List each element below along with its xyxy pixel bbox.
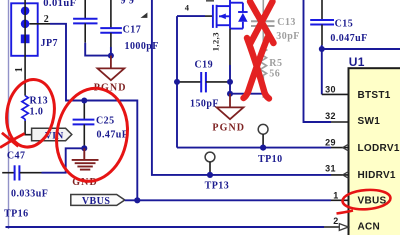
svg-text:C17: C17 bbox=[123, 25, 142, 36]
capacitor C47 bbox=[2, 165, 41, 180]
pin 31 arrow bbox=[343, 172, 349, 179]
svg-text:PGND: PGND bbox=[212, 122, 245, 133]
svg-text:C25: C25 bbox=[96, 115, 115, 126]
capacitor C17 bbox=[100, 0, 122, 47]
power port VBUS tag bbox=[71, 195, 125, 208]
wire BTST1 net bbox=[322, 45, 400, 94]
svg-text:BTST1: BTST1 bbox=[358, 90, 391, 101]
test point TP10 bbox=[258, 124, 268, 147]
Q1 substrate arrow bbox=[219, 14, 226, 20]
annotation red ellipse around R13 bbox=[0, 76, 60, 151]
junction C19 right bbox=[227, 79, 233, 85]
annotation red ellipse around VBUS pin bbox=[337, 188, 392, 213]
junction C25 bottom / GND bbox=[81, 145, 87, 151]
small arrow mark (cropped pin 4 label above) bbox=[141, 13, 148, 18]
wire Q1 source to PGND2 bbox=[229, 29, 231, 94]
wire VBUS net to U1 pin 1 bbox=[125, 199, 349, 201]
wire SW1 net (vertical x=303.5 to U1 pin 32) bbox=[304, 0, 349, 122]
svg-text:1,2,3: 1,2,3 bbox=[211, 32, 221, 51]
pin 29 arrow bbox=[343, 144, 349, 151]
annotation red ellipse around C25/GND bbox=[49, 83, 134, 187]
wire caps to PGND junction bbox=[85, 43, 111, 56]
svg-text:C13: C13 bbox=[277, 17, 296, 28]
sheet border left bbox=[8, 0, 10, 229]
svg-text:TP13: TP13 bbox=[205, 180, 230, 191]
svg-text:32: 32 bbox=[325, 111, 336, 121]
svg-text:R13: R13 bbox=[30, 95, 49, 106]
svg-text:1000pF: 1000pF bbox=[125, 41, 159, 52]
connector JP7 bbox=[11, 3, 38, 56]
junction PGND1 bbox=[108, 53, 114, 59]
op-amp U1 (IC body) bbox=[349, 68, 400, 237]
partial text fragment top bbox=[206, 0, 214, 2]
annotation red X over R5 bbox=[244, 38, 270, 99]
pin 2 arrow bbox=[339, 224, 348, 231]
power ground PGND symbol 1 bbox=[98, 56, 125, 81]
capacitor 0.01uF (top left) bbox=[73, 0, 97, 43]
svg-text:1: 1 bbox=[333, 191, 338, 201]
svg-text:29: 29 bbox=[325, 138, 336, 148]
junction Q1 source / PGND2 bbox=[227, 91, 233, 97]
svg-text:TP10: TP10 bbox=[258, 154, 283, 165]
test point TP13 bbox=[205, 152, 215, 175]
svg-text:30: 30 bbox=[325, 85, 336, 95]
wire LODRV1 net (gate wire, vertical, to U1 pin 29) bbox=[177, 16, 349, 148]
power ground PGND symbol 2 bbox=[217, 94, 244, 120]
wire JP7 pin2 to VBUS rail bbox=[29, 24, 137, 201]
capacitor C13 (deleted, gray) bbox=[251, 0, 275, 46]
ground GND symbol bbox=[72, 148, 99, 169]
wire HIDRV1 net (vertical at x=152 to TP13 to U1 pin 31) bbox=[152, 0, 349, 175]
svg-text:31: 31 bbox=[325, 164, 336, 174]
junction TP13 bbox=[207, 172, 213, 178]
svg-text:JP7: JP7 bbox=[41, 38, 58, 49]
wire R13 to VIN bbox=[25, 121, 32, 135]
svg-text:U1: U1 bbox=[349, 55, 365, 69]
wire C47 to GND node bbox=[42, 148, 85, 172]
svg-text:TP16: TP16 bbox=[4, 208, 29, 219]
wire JP7 vertical (pin stem through connector) bbox=[24, 0, 26, 96]
Q1 body diode triangle bbox=[238, 13, 248, 22]
resistor R13 bbox=[22, 96, 28, 121]
wire ACN net (bottom horizontal) bbox=[6, 226, 349, 228]
junction C19 left bbox=[174, 79, 180, 85]
junction BTST1/C15 bbox=[319, 46, 325, 52]
svg-text:C47: C47 bbox=[7, 151, 26, 162]
svg-text:0.47uF: 0.47uF bbox=[97, 129, 129, 140]
svg-text:SW1: SW1 bbox=[358, 116, 381, 127]
transistor Q1 (MOSFET with body diode) bbox=[213, 0, 248, 29]
junction TP10 bbox=[260, 145, 266, 151]
power port VIN bbox=[32, 128, 72, 141]
svg-text:R5: R5 bbox=[269, 58, 282, 69]
svg-text:C15: C15 bbox=[335, 18, 354, 29]
junction C25 top bbox=[81, 98, 87, 104]
svg-text:56: 56 bbox=[269, 69, 280, 80]
junction VBUS bbox=[134, 197, 140, 203]
svg-text:VBUS: VBUS bbox=[82, 196, 110, 207]
resistor R5 (deleted, gray) bbox=[260, 46, 266, 98]
svg-text:0.047uF: 0.047uF bbox=[330, 33, 367, 44]
capacitor C25 bbox=[73, 101, 95, 149]
svg-text:1.0: 1.0 bbox=[30, 107, 44, 118]
svg-text:4: 4 bbox=[185, 3, 190, 13]
svg-text:HIDRV1: HIDRV1 bbox=[358, 170, 396, 181]
annotation red X over C13 bbox=[250, 2, 274, 45]
svg-text:30pF: 30pF bbox=[276, 31, 299, 42]
svg-text:9 9: 9 9 bbox=[121, 0, 135, 6]
svg-text:C19: C19 bbox=[195, 59, 214, 70]
svg-text:LODRV1: LODRV1 bbox=[358, 143, 400, 154]
svg-text:0.033uF: 0.033uF bbox=[11, 188, 48, 199]
svg-text:1: 1 bbox=[14, 67, 25, 72]
svg-text:ACN: ACN bbox=[358, 222, 381, 233]
svg-text:0.01uF: 0.01uF bbox=[43, 0, 76, 9]
capacitor C19 bbox=[177, 72, 230, 92]
wire stub to removed R5 bbox=[230, 93, 262, 95]
svg-text:150pF: 150pF bbox=[190, 99, 219, 110]
capacitor C15 bbox=[310, 0, 334, 45]
svg-text:2: 2 bbox=[333, 216, 338, 226]
